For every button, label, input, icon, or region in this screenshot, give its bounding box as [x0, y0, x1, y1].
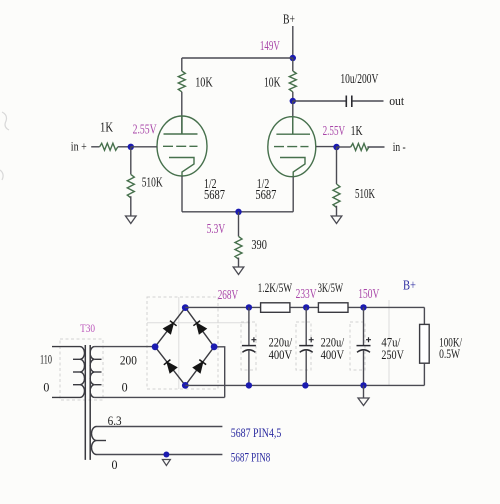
svg-text:110: 110 — [40, 352, 52, 367]
resistor 10K left — [178, 71, 185, 92]
resistor 1K right — [351, 144, 369, 151]
wire bottom rail — [185, 384, 424, 386]
svg-text:B+: B+ — [283, 13, 295, 28]
svg-text:5687: 5687 — [204, 187, 225, 202]
diode D4 bottom-right — [193, 360, 206, 373]
svg-text:390: 390 — [251, 238, 267, 253]
wire right 10K to out node — [292, 92, 294, 101]
node grid left — [128, 144, 134, 150]
bridge rectifier diamond — [155, 308, 214, 386]
dashed selection box C3 — [350, 322, 365, 370]
svg-text:510K: 510K — [355, 187, 375, 202]
resistor R 3K/5W — [318, 303, 348, 313]
node C3 top — [360, 304, 366, 310]
wire grid right to node — [316, 146, 337, 148]
transformer heater winding 6.3 — [92, 427, 106, 455]
wire 1K to grid node — [118, 146, 131, 148]
resistor R 1.2K/5W — [261, 303, 290, 313]
ground right input — [331, 216, 342, 224]
tube U1 left 1/2 5687 — [157, 116, 207, 176]
wire top horizontal rail — [182, 57, 293, 59]
wire secondary top to bridge left — [95, 346, 156, 348]
tube U2 right 1/2 5687 — [268, 117, 316, 177]
svg-text:T30: T30 — [80, 321, 95, 335]
svg-text:5687: 5687 — [255, 187, 276, 202]
wire cathode rail — [182, 211, 293, 213]
svg-text:400V: 400V — [321, 347, 345, 362]
svg-text:in +: in + — [71, 138, 87, 153]
node C2 top — [303, 304, 309, 310]
dashed selection box C1 — [241, 322, 256, 370]
wire left cathode down — [181, 176, 183, 212]
transformer T30 primary — [52, 347, 85, 398]
ground power supply — [358, 398, 369, 406]
ground heater — [162, 460, 170, 466]
svg-text:149V: 149V — [260, 39, 280, 54]
dashed selection box C2 — [296, 322, 311, 370]
resistor R 100K/0.5W — [420, 324, 430, 363]
wire out horizontal — [293, 100, 346, 102]
node top junction — [290, 55, 296, 61]
svg-text:0: 0 — [43, 380, 49, 395]
dashed selection box bridge — [147, 297, 218, 389]
svg-text:268V: 268V — [218, 288, 239, 303]
svg-text:1K: 1K — [100, 121, 113, 136]
wire 1K right to in- — [367, 146, 384, 148]
svg-text:233V: 233V — [296, 287, 317, 302]
wire 510K right to ground — [336, 206, 338, 216]
ground left input — [126, 216, 137, 224]
capacitor C2 220u/400V — [299, 307, 314, 385]
svg-text:5687 PIN4,5: 5687 PIN4,5 — [231, 425, 281, 440]
resistor 1K left — [100, 143, 118, 150]
capacitor C3 47u/250V — [357, 307, 372, 385]
svg-text:0.5W: 0.5W — [439, 346, 461, 361]
svg-text:10u/200V: 10u/200V — [340, 72, 378, 87]
node C2 bottom — [302, 382, 308, 388]
svg-text:1.2K/5W: 1.2K/5W — [258, 280, 293, 295]
diode D3 bottom-left — [164, 360, 177, 373]
svg-text:in -: in - — [393, 139, 406, 154]
wire node down to 510K right — [336, 147, 338, 184]
svg-text:2.55V: 2.55V — [323, 124, 346, 139]
wire left 10K to plate — [181, 92, 183, 134]
wire 390 to ground — [238, 258, 240, 267]
capacitor C1 220u/400V — [242, 307, 257, 385]
wire node to 1K right — [337, 146, 351, 148]
wire 510K to ground — [130, 196, 132, 216]
wire 100K down to rail — [423, 363, 425, 385]
ground cathode resistor — [233, 267, 244, 275]
dashed selection box transformer — [60, 339, 103, 400]
svg-text:5.3V: 5.3V — [207, 222, 226, 237]
wire B+ down to top node — [292, 26, 294, 58]
svg-text:0: 0 — [122, 380, 128, 395]
svg-text:400V: 400V — [269, 347, 293, 362]
transformer core — [85, 345, 90, 460]
resistor 10K right — [289, 71, 296, 92]
wire rail down to 100K — [423, 307, 425, 324]
wire node down to 510K — [130, 147, 132, 175]
node cathode junction — [235, 209, 241, 215]
wire node to tube grid — [131, 146, 157, 148]
node bridge top — [182, 304, 189, 311]
node bridge right — [211, 343, 218, 350]
wire junction to right plate — [292, 101, 294, 134]
node grid right — [333, 144, 339, 150]
wire right cathode down — [292, 177, 294, 212]
svg-text:200: 200 — [120, 352, 137, 367]
diode D1 top-left — [164, 321, 177, 334]
node anode/out junction — [290, 98, 296, 104]
resistor 510K left — [127, 174, 134, 197]
node bridge bottom — [182, 382, 189, 389]
wire in+ lead — [91, 146, 99, 148]
wire right branch down — [292, 58, 294, 71]
node bridge left — [152, 343, 159, 350]
svg-text:150V: 150V — [358, 287, 379, 302]
svg-text:0: 0 — [112, 457, 118, 472]
svg-text:10K: 10K — [195, 76, 213, 91]
wire elbow up to bridge right — [214, 347, 225, 398]
svg-text:2.55V: 2.55V — [133, 122, 157, 137]
wire down to 390 — [238, 212, 240, 237]
node C3 bottom — [360, 382, 366, 388]
svg-text:B+: B+ — [403, 279, 416, 294]
node C1 bottom — [246, 382, 252, 388]
wire secondary bottom to elbow — [95, 396, 225, 398]
node C1 top — [246, 304, 252, 310]
svg-text:250V: 250V — [381, 347, 404, 362]
svg-text:5687 PIN8: 5687 PIN8 — [231, 450, 270, 465]
wire heater top — [97, 426, 223, 428]
svg-text:1K: 1K — [351, 124, 363, 139]
wire to ground stub — [363, 385, 365, 398]
wire heater bottom — [97, 454, 223, 456]
wire left branch down — [181, 58, 183, 71]
svg-text:3K/5W: 3K/5W — [318, 280, 344, 295]
svg-text:10K: 10K — [264, 76, 281, 91]
svg-text:out: out — [389, 93, 404, 108]
resistor 390 — [235, 236, 242, 259]
faint grid artifact lines — [147, 297, 389, 389]
diode D2 top-right — [193, 321, 206, 334]
svg-text:510K: 510K — [142, 176, 163, 191]
wire cap to out — [353, 100, 384, 102]
node heater ground — [163, 452, 169, 458]
resistor 510K right — [333, 184, 340, 207]
transformer T30 secondary HV — [90, 347, 101, 398]
wire top rail — [185, 306, 424, 308]
